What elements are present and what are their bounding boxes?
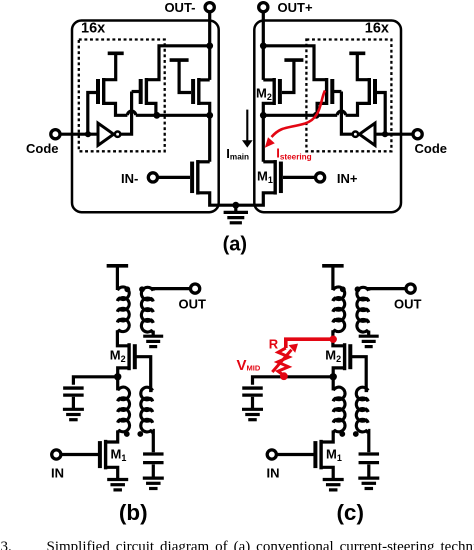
phase dot upper secondary (b) bbox=[139, 286, 145, 292]
ground (a) center bbox=[224, 211, 248, 214]
terminal IN (b) bbox=[52, 450, 61, 459]
wire right T1 source to rail bbox=[346, 103, 370, 115]
phase dot lower primary (b) bbox=[124, 431, 130, 437]
wire tail source to ground (right) bbox=[236, 193, 275, 205]
transistor T2 (left array cascode) bbox=[139, 79, 143, 104]
wire gate cap to ground (b) bbox=[72, 397, 75, 408]
inductor lower secondary (c) bbox=[356, 387, 368, 433]
wire M2 source to node (b) bbox=[118, 368, 129, 391]
node B dot (right top junction) bbox=[260, 42, 267, 49]
wire M1 source to ground (c) bbox=[321, 467, 333, 478]
capacitor gate (b) bbox=[63, 386, 84, 389]
transistor M1 (b) bbox=[98, 441, 102, 468]
svg-text:R: R bbox=[269, 337, 279, 352]
wire inverter output up to T2 gate (right) bbox=[341, 92, 352, 135]
inductor upper secondary (c) bbox=[357, 287, 369, 333]
current arrow I_steering (red) bbox=[272, 91, 326, 138]
phase dot upper secondary (c) bbox=[355, 286, 361, 292]
capacitor V_MID (c) bbox=[242, 386, 263, 389]
wire M2 gate to lower secondary (b) bbox=[135, 357, 153, 391]
wire lower primary to M1 drain (c) bbox=[321, 430, 333, 442]
right 16x current-source array boundary (dashed box) bbox=[306, 40, 391, 152]
inductor lower secondary (b) bbox=[141, 387, 153, 433]
wire lower secondary to cap (b) bbox=[151, 431, 155, 453]
wire right T1 drain to VDD bbox=[357, 53, 369, 79]
VDD T-bar (c) bbox=[322, 264, 344, 268]
capacitor lower right (c) bbox=[359, 452, 380, 455]
wire Code input (left) bbox=[60, 133, 99, 136]
terminal Code (left) bbox=[51, 130, 60, 139]
bias T-bar for right cascode M2 bbox=[284, 58, 303, 62]
ground M1 (b) bbox=[107, 478, 128, 481]
wire tail drain (right) bbox=[263, 160, 275, 163]
phase dot upper primary (c) bbox=[340, 286, 346, 292]
svg-text:OUT: OUT bbox=[394, 296, 422, 311]
node M2 source junction dot (b) bbox=[114, 373, 121, 380]
node red dot top (c) bbox=[330, 336, 337, 343]
variable resistor arrow (red, c) bbox=[272, 350, 291, 372]
transistor right T1 (array current source) bbox=[373, 79, 377, 104]
wire hop (rail over inverter output, right) bbox=[337, 111, 345, 115]
wire OUT (c) bbox=[369, 289, 406, 291]
wire rail segment left bbox=[136, 114, 210, 117]
wire inverter output up to T2 gate (left) bbox=[120, 92, 131, 135]
terminal OUT+ wire bbox=[262, 11, 265, 80]
wire right T2 source to rail bbox=[317, 103, 327, 115]
node rail-T2 junction dot (left) bbox=[153, 112, 160, 119]
wire V_MID node (c) bbox=[253, 377, 334, 385]
left output cell boundary (rounded box) bbox=[72, 21, 219, 213]
terminal OUT- wire bbox=[208, 11, 211, 80]
transistor left cascode (on OUT- line) bbox=[191, 79, 195, 104]
terminal OUT (c) bbox=[406, 284, 415, 293]
inductor lower primary (b) bbox=[118, 387, 130, 433]
svg-text:IN+: IN+ bbox=[337, 171, 358, 186]
wire cascode gate to bias (left) bbox=[179, 60, 191, 92]
wire T1 drain to VDD bbox=[104, 53, 116, 79]
terminal OUT (b) bbox=[191, 284, 200, 293]
svg-text:(a): (a) bbox=[223, 234, 247, 256]
wire IN+ to gate bbox=[283, 176, 316, 179]
VDD T-bar (b) bbox=[107, 264, 128, 268]
wire lower primary to M1 drain (b) bbox=[106, 430, 118, 442]
wire cap to ground (b) bbox=[152, 464, 155, 477]
wire M2 source to node (c) bbox=[333, 368, 344, 391]
wire lower secondary to cap (c) bbox=[367, 431, 371, 453]
inductor lower primary (c) bbox=[333, 387, 345, 433]
svg-text:(c): (c) bbox=[336, 500, 364, 525]
wire T1 source to rail bbox=[104, 103, 128, 115]
ground upper secondary (c) bbox=[359, 335, 379, 338]
bias T-bar for left cascode bbox=[170, 58, 189, 62]
wire upper primary to M2 drain (b) bbox=[117, 330, 129, 346]
ground lower cap (b) bbox=[143, 477, 164, 480]
ground lower cap (c) bbox=[358, 477, 379, 480]
svg-text:Code: Code bbox=[415, 141, 448, 156]
wire M2 gate to lower secondary (c) bbox=[350, 357, 368, 391]
svg-text:16x: 16x bbox=[81, 21, 105, 37]
wire IN to gate (b) bbox=[61, 453, 100, 456]
wire tail drain (left) bbox=[198, 160, 210, 163]
transistor M1 (right tail, IN+ device) bbox=[279, 162, 283, 194]
wire IN to gate (c) bbox=[277, 453, 316, 456]
transistor M1 (c) bbox=[313, 441, 317, 468]
resistor R (red zigzag, c) bbox=[278, 348, 290, 376]
wire hop (rail over inverter output, left) bbox=[127, 111, 135, 115]
wire right T2 gate lead bbox=[332, 90, 341, 93]
wire VDD stem (c) bbox=[331, 266, 334, 290]
phase dot lower secondary (b) bbox=[137, 431, 143, 437]
VDD T-bar above right T1 bbox=[349, 51, 365, 55]
terminal OUT+ bbox=[259, 3, 268, 12]
wire upper secondary to ground (b) bbox=[152, 331, 155, 336]
node red dot bottom (c) bbox=[280, 372, 288, 380]
wire cascode drain (left) bbox=[199, 78, 210, 81]
svg-text:(b): (b) bbox=[119, 500, 148, 525]
svg-text:16x: 16x bbox=[365, 21, 389, 37]
node rail-main junction dot (right) bbox=[260, 112, 267, 119]
svg-text:IN: IN bbox=[51, 466, 64, 481]
ground upper secondary (b) bbox=[143, 335, 163, 338]
wire upper secondary to ground (c) bbox=[367, 331, 370, 336]
wire VDD stem (b) bbox=[116, 266, 119, 290]
wire cascode source to main line (left) bbox=[199, 103, 210, 162]
node M2 source junction dot (c) bbox=[330, 373, 337, 380]
node rail-T2 junction dot (right) bbox=[313, 112, 320, 119]
transistor left tail (IN- device) bbox=[190, 162, 194, 194]
wire IN- to gate bbox=[157, 176, 190, 179]
wire T1 gate to Code line bbox=[88, 93, 98, 135]
wire M2 drain (right) bbox=[263, 78, 274, 81]
wire right T1 gate to Code line bbox=[375, 93, 385, 135]
left 16x current-source array boundary (dashed box) bbox=[79, 40, 165, 152]
phase dot lower secondary (c) bbox=[353, 431, 359, 437]
wire gate cap node (b) bbox=[73, 377, 117, 385]
wire T2 source to rail bbox=[146, 103, 156, 115]
wire cap to ground (c) bbox=[367, 464, 370, 477]
svg-text:Code: Code bbox=[26, 141, 59, 156]
wire V_MID cap to ground (c) bbox=[251, 397, 254, 408]
svg-text:3.: 3. bbox=[1, 539, 12, 550]
wire ground stub (a) bbox=[234, 205, 237, 211]
terminal Code (right) bbox=[413, 130, 422, 139]
inverter U2 (right) bbox=[359, 123, 375, 145]
svg-text:OUT: OUT bbox=[179, 296, 207, 311]
transistor M2 (right cascode on OUT+ line) bbox=[278, 79, 282, 104]
wire top rail right bbox=[263, 46, 326, 80]
wire upper primary to M2 drain (c) bbox=[333, 330, 345, 346]
wire cascode gate to bias (right) bbox=[282, 60, 294, 92]
wire Code input (right) bbox=[374, 133, 413, 136]
transistor T1 (left array current source) bbox=[96, 79, 100, 104]
terminal IN- bbox=[148, 173, 157, 182]
node Code junction dot (right) bbox=[382, 131, 388, 137]
inverter U1 (left) bbox=[98, 123, 114, 145]
ground V_MID cap (c) bbox=[242, 408, 263, 411]
wire red R top (c) bbox=[286, 339, 333, 348]
transistor right T2 (array cascode) bbox=[330, 79, 334, 104]
terminal OUT- bbox=[205, 3, 214, 12]
VDD T-bar above left T1 bbox=[108, 51, 124, 55]
node A dot (left top junction) bbox=[206, 42, 213, 49]
right output cell boundary (rounded box) bbox=[254, 21, 401, 213]
current arrow I_main bbox=[246, 110, 248, 141]
node tail ground junction dot bbox=[232, 202, 239, 209]
wire top rail left bbox=[146, 46, 209, 80]
wire M2 source to main line (right) bbox=[263, 103, 274, 162]
node Code junction dot (left) bbox=[85, 131, 91, 137]
svg-text:OUT-: OUT- bbox=[164, 0, 195, 15]
capacitor lower right (b) bbox=[143, 452, 164, 455]
ground M1 (c) bbox=[323, 478, 344, 481]
svg-text:IN: IN bbox=[267, 466, 280, 481]
wire M1 source to ground (b) bbox=[106, 467, 118, 478]
inductor upper primary (c) bbox=[333, 287, 345, 333]
wire T2 gate lead bbox=[132, 90, 141, 93]
wire tail source to ground (left) bbox=[198, 193, 236, 205]
inductor upper primary (b) bbox=[117, 287, 129, 333]
svg-text:OUT+: OUT+ bbox=[278, 0, 313, 15]
terminal IN+ bbox=[316, 173, 325, 182]
svg-text:Simplified circuit diagram of: Simplified circuit diagram of (a) conven… bbox=[47, 539, 474, 550]
inductor upper secondary (b) bbox=[141, 287, 153, 333]
ground gate cap (b) bbox=[63, 408, 84, 411]
phase dot upper primary (b) bbox=[124, 286, 130, 292]
transistor M2 (b) bbox=[133, 344, 137, 369]
transistor M2 (c) bbox=[348, 344, 352, 369]
phase dot lower primary (c) bbox=[339, 431, 345, 437]
wire OUT (b) bbox=[153, 289, 190, 291]
terminal IN (c) bbox=[267, 450, 276, 459]
node rail-main junction dot (left) bbox=[206, 112, 213, 119]
svg-text:IN-: IN- bbox=[121, 171, 138, 186]
wire rail segment right bbox=[263, 114, 337, 117]
